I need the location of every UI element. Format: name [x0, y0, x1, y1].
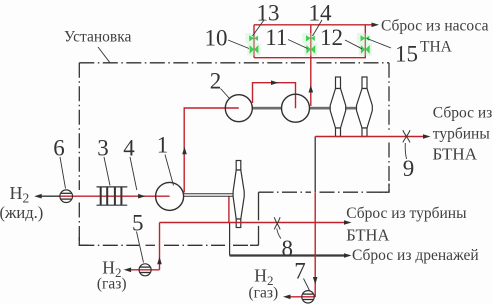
svg-text:ТНА: ТНА [420, 39, 453, 56]
svg-text:3: 3 [97, 136, 109, 161]
svg-text:15: 15 [395, 42, 418, 67]
svg-text:Сброс из дренажей: Сброс из дренажей [352, 247, 479, 264]
svg-text:7: 7 [294, 258, 306, 283]
svg-text:(газ): (газ) [97, 276, 127, 293]
svg-text:6: 6 [53, 136, 65, 161]
svg-text:9: 9 [403, 156, 415, 181]
svg-text:8: 8 [282, 236, 294, 261]
svg-text:5: 5 [132, 211, 144, 236]
svg-text:Сброс из насоса: Сброс из насоса [381, 18, 489, 35]
svg-text:13: 13 [257, 1, 280, 26]
svg-text:(газ): (газ) [249, 285, 279, 302]
svg-text:(жид.): (жид.) [0, 203, 43, 222]
svg-text:2: 2 [210, 69, 222, 94]
svg-text:12: 12 [320, 25, 343, 50]
svg-text:1: 1 [157, 133, 169, 158]
svg-text:БТНА: БТНА [433, 145, 478, 164]
svg-text:турбины: турбины [433, 126, 491, 143]
svg-text:14: 14 [309, 1, 333, 26]
svg-text:БТНА: БТНА [346, 226, 389, 245]
svg-text:11: 11 [265, 25, 287, 50]
svg-text:4: 4 [123, 136, 135, 161]
svg-text:Сброс из: Сброс из [433, 105, 492, 122]
svg-text:Установка: Установка [64, 29, 131, 46]
svg-text:10: 10 [205, 26, 228, 51]
svg-text:Сброс из турбины: Сброс из турбины [346, 205, 467, 222]
